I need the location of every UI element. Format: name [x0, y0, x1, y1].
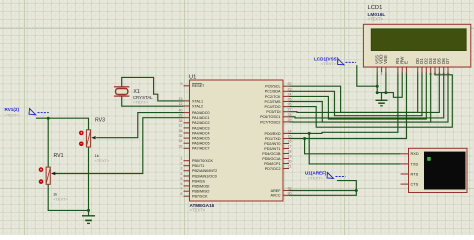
svg-text:38: 38: [179, 119, 183, 123]
svg-text:37: 37: [179, 124, 183, 128]
wire U1 PD1 to LCD E: [289, 73, 407, 139]
wire U1 PC3 to LCD D3: [289, 73, 431, 123]
svg-text:33: 33: [179, 144, 183, 148]
svg-text:<TEXT>: <TEXT>: [95, 158, 111, 163]
wire crystal X1 bottom to U1 XTAL2: [122, 96, 184, 106]
svg-text:TXD: TXD: [411, 161, 419, 166]
svg-text:XTAL2: XTAL2: [192, 104, 203, 108]
wire LCD VSS probe link: [357, 65, 377, 86]
voltage probe LCD1(VSS): [314, 56, 356, 66]
svg-text:PA0/ADC0: PA0/ADC0: [192, 111, 210, 115]
svg-text:35: 35: [179, 134, 183, 138]
node junction PD0 branch: [308, 132, 311, 135]
pin numbers U1 left: [179, 82, 183, 196]
svg-text:14: 14: [288, 129, 292, 133]
wire RV1 bottom to ground junction: [48, 184, 88, 210]
svg-text:PD4/OC1B: PD4/OC1B: [262, 152, 281, 156]
svg-text:PC4/TDO: PC4/TDO: [265, 105, 281, 109]
svg-text:15: 15: [288, 135, 292, 139]
svg-text:RXD: RXD: [411, 151, 419, 156]
potentiometer RV1: [39, 167, 56, 184]
svg-text:PD7/OC2: PD7/OC2: [265, 167, 281, 171]
svg-text:7: 7: [181, 187, 183, 191]
svg-text:13: 13: [179, 97, 183, 101]
pin names virtual terminal: [411, 151, 419, 187]
svg-text:AVCC: AVCC: [271, 194, 281, 198]
svg-text:PD2/INT0: PD2/INT0: [264, 142, 280, 146]
svg-text:29: 29: [288, 118, 292, 122]
svg-text:PD0/RXD: PD0/RXD: [265, 132, 281, 136]
wire U1 PC0 to LCD D0: [289, 73, 418, 113]
wire U1 PC4 to LCD D4: [289, 73, 452, 128]
svg-text:PA2/ADC2: PA2/ADC2: [192, 121, 210, 125]
wire RV1 wiper to U1 PA1: [54, 118, 184, 174]
svg-text:19: 19: [288, 155, 292, 159]
pin names U1 right column: [260, 85, 281, 198]
svg-text:30: 30: [288, 191, 292, 195]
svg-text:3: 3: [181, 167, 183, 171]
node junction VEE ground: [384, 91, 387, 94]
wire U1 PC2 to LCD D2: [289, 73, 426, 120]
wire U1 PD0 branch to terminal TXD: [309, 133, 400, 164]
svg-text:39: 39: [179, 114, 183, 118]
pins LCD1 bottom stubs: [377, 67, 448, 73]
svg-text:25: 25: [288, 98, 292, 102]
wire RV1 top vertical: [47, 118, 49, 167]
crystal X1: [114, 87, 129, 96]
node junction VSS probe: [376, 85, 379, 88]
svg-text:<TEXT>: <TEXT>: [368, 17, 384, 22]
svg-text:12: 12: [438, 72, 442, 76]
svg-text:RV3: RV3: [95, 118, 105, 124]
svg-text:LCD1: LCD1: [368, 5, 383, 11]
svg-text:17: 17: [288, 145, 292, 149]
svg-text:<TEXT>: <TEXT>: [5, 113, 21, 118]
voltage probe RV1(2): [5, 107, 49, 118]
svg-text:X1: X1: [133, 89, 139, 95]
svg-text:PA5/ADC5: PA5/ADC5: [192, 137, 210, 141]
pins virtual terminal stubs: [401, 154, 409, 184]
pin numbers U1 right: [288, 82, 292, 195]
svg-text:RV1: RV1: [54, 153, 64, 159]
svg-text:PC0/SCL: PC0/SCL: [265, 85, 280, 89]
svg-text:12: 12: [179, 102, 183, 106]
svg-text:28: 28: [288, 113, 292, 117]
node junction RV1 top net: [47, 117, 50, 120]
potentiometer RV3: [79, 130, 96, 147]
wire U1 PD1 branch to terminal RXD: [305, 139, 401, 154]
ground left: [82, 210, 95, 223]
svg-text:CTS: CTS: [411, 182, 419, 187]
svg-text:PB5/MOSI: PB5/MOSI: [192, 184, 209, 188]
node junction AREF AVCC: [355, 189, 358, 192]
svg-text:PB4/SS: PB4/SS: [192, 179, 205, 183]
svg-text:PC3/TMS: PC3/TMS: [265, 100, 282, 104]
wire RV3 bottom vertical: [88, 147, 90, 210]
wire U1 PC1 to LCD D1: [289, 73, 422, 116]
pins U1 right side stubs: [283, 86, 289, 195]
svg-text:11: 11: [433, 72, 436, 76]
svg-text:21: 21: [288, 165, 292, 169]
svg-text:VEE: VEE: [383, 55, 388, 64]
wire RV3 wiper to U1 PA0: [96, 113, 183, 138]
svg-text:<TEXT>: <TEXT>: [308, 176, 324, 181]
svg-text:PC2/TCK: PC2/TCK: [265, 95, 281, 99]
svg-text:AREF: AREF: [271, 189, 282, 193]
svg-text:<TEXT>: <TEXT>: [321, 61, 337, 66]
svg-text:2: 2: [181, 162, 183, 166]
svg-text:20: 20: [288, 160, 292, 164]
svg-text:27: 27: [288, 108, 292, 112]
svg-text:PD6/ICP1: PD6/ICP1: [264, 162, 280, 166]
svg-text:<TEXT>: <TEXT>: [190, 208, 206, 213]
svg-text:PD5/OC1A: PD5/OC1A: [262, 157, 281, 161]
svg-text:PC1/SDA: PC1/SDA: [265, 90, 281, 94]
wire LCD VEE down to ground net: [385, 73, 387, 93]
pin numbers LCD1: [376, 72, 450, 76]
wire U1 PC6 to LCD D6: [289, 73, 444, 118]
svg-text:23: 23: [288, 87, 292, 91]
svg-text:40: 40: [179, 109, 183, 113]
svg-text:PC7/TOSC2: PC7/TOSC2: [260, 120, 280, 124]
wire RV1(2) net top horizontal to RV3 top: [36, 118, 89, 130]
svg-text:U1: U1: [189, 75, 196, 81]
svg-text:XTAL1: XTAL1: [192, 99, 203, 103]
svg-text:26: 26: [288, 103, 292, 107]
svg-text:<TEXT>: <TEXT>: [133, 99, 149, 104]
svg-text:6: 6: [181, 182, 183, 186]
svg-text:PA4/ADC4: PA4/ADC4: [192, 131, 210, 135]
svg-text:32: 32: [288, 187, 292, 191]
svg-text:PB1/T1: PB1/T1: [192, 164, 204, 168]
svg-text:13: 13: [442, 72, 446, 76]
svg-text:RTS: RTS: [411, 172, 419, 177]
pin names LCD1 vertical labels: [374, 55, 450, 64]
svg-text:E: E: [404, 61, 409, 64]
svg-text:PA3/ADC3: PA3/ADC3: [192, 126, 210, 130]
LCD LCD1 body: [363, 24, 470, 67]
pin names U1 left column: [192, 84, 217, 198]
svg-text:PA7/ADC7: PA7/ADC7: [192, 147, 210, 151]
svg-text:14: 14: [446, 72, 450, 76]
pins U1 left side stubs: [184, 86, 190, 196]
node junction ground net left: [87, 209, 90, 212]
svg-text:9: 9: [181, 82, 183, 86]
svg-text:PD3/INT1: PD3/INT1: [264, 147, 280, 151]
svg-text:5: 5: [181, 177, 183, 181]
node junction PD1 branch: [303, 137, 306, 140]
virtual terminal body: [409, 148, 468, 192]
pin name RESET overline: [192, 82, 202, 84]
wire U1 AREF: [289, 190, 356, 192]
svg-text:PB7/SCK: PB7/SCK: [192, 195, 208, 199]
svg-text:10: 10: [429, 72, 433, 76]
wire crystal X1 top to U1 XTAL1: [122, 77, 184, 101]
svg-text:PB3/AIN1/OC0: PB3/AIN1/OC0: [192, 174, 217, 178]
microcontroller U1 body: [190, 80, 284, 201]
svg-text:18: 18: [288, 150, 292, 154]
svg-text:D7: D7: [445, 58, 450, 64]
svg-text:24: 24: [288, 92, 292, 96]
ground LCD: [376, 100, 388, 106]
svg-text:PB6/MISO: PB6/MISO: [192, 190, 210, 194]
wire U1 PC7 to LCD D7: [289, 73, 448, 123]
svg-text:4: 4: [181, 172, 183, 176]
svg-text:PB2/AIN0/INT2: PB2/AIN0/INT2: [192, 169, 217, 173]
svg-text:8: 8: [181, 192, 183, 196]
wire U1 PD0 to LCD RS: [289, 73, 398, 134]
svg-text:PB0/T0/XCK: PB0/T0/XCK: [192, 159, 213, 163]
wire U1 PC5 to LCD D5: [289, 73, 439, 113]
svg-text:22: 22: [288, 82, 292, 86]
svg-text:PC6/TOSC1: PC6/TOSC1: [260, 115, 280, 119]
wire LCD VSS down to ground net: [377, 73, 381, 100]
svg-text:RV1(2): RV1(2): [5, 107, 20, 112]
svg-text:RESET: RESET: [192, 84, 205, 88]
svg-text:36: 36: [179, 129, 183, 133]
svg-text:PA6/ADC6: PA6/ADC6: [192, 142, 210, 146]
svg-text:1: 1: [181, 157, 183, 161]
svg-text:<TEXT>: <TEXT>: [53, 197, 69, 202]
node junction VSS ground: [376, 91, 379, 94]
svg-text:16: 16: [288, 140, 292, 144]
wire U1 AVCC to AREF net with probe branch: [289, 181, 356, 196]
voltage probe U1(AREF): [305, 171, 346, 181]
svg-text:PC5/TDI: PC5/TDI: [266, 110, 280, 114]
wire ground net horizontal to LCD RW jog: [377, 73, 402, 98]
svg-text:34: 34: [179, 139, 183, 143]
svg-text:PA1/ADC1: PA1/ADC1: [192, 116, 210, 120]
svg-text:PD1/TXD: PD1/TXD: [265, 137, 281, 141]
